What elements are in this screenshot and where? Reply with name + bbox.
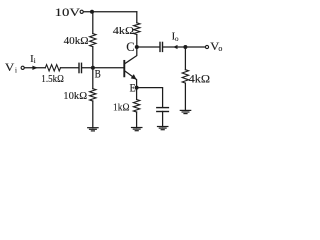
ground (bias divider) [88,128,98,131]
transistor Q1 emitter arrow [131,74,137,79]
resistor 10kΩ [90,89,96,101]
ground (emitter) [132,128,142,131]
wire: 1k to ground [136,112,138,128]
Vi terminal [21,66,24,69]
wire: 10k to ground [92,101,94,128]
svg-text:4kΩ: 4kΩ [113,25,134,37]
Ii current arrow [32,66,37,70]
wire: load resistor to ground [184,83,186,110]
svg-text:10kΩ: 10kΩ [63,90,87,102]
wire: node E to bypass cap [137,88,163,107]
wire: 4k to node C [136,35,138,48]
wire: rail down to 4k collector resistor [136,12,138,23]
resistor 40kΩ [90,34,96,47]
svg-text:10V: 10V [55,7,81,19]
10V terminal [80,10,83,13]
svg-text:i: i [15,66,17,74]
svg-text:1kΩ: 1kΩ [113,102,130,114]
wire: node B down to 10k [92,68,94,89]
output junction dot [183,45,187,49]
wire: bypass cap to ground [162,112,164,127]
resistor 4kΩ (load) [182,70,188,83]
node C dot [135,45,139,49]
capacitor C1 plates [78,63,80,72]
svg-text:i: i [34,57,36,65]
svg-text:o: o [175,35,179,43]
transistor Q1 emitter lead [125,71,136,87]
wire: 40k to node B [92,47,94,68]
wire: 10V rail [84,11,137,13]
node B dot [91,66,95,70]
junction dot on rail [90,10,94,14]
wire: node E down to 1k [136,88,138,100]
transistor Q1 collector lead [125,47,137,63]
Vo terminal [205,45,208,48]
wire: node C to coupling cap C2 [137,46,160,48]
capacitor CE bypass plates [157,107,169,109]
svg-text:40kΩ: 40kΩ [64,35,89,47]
Io current arrow [173,45,177,49]
node E dot [135,86,139,90]
svg-text:1.5kΩ: 1.5kΩ [41,74,64,85]
wire: junction down to load resistor [184,47,186,70]
svg-text:E: E [130,82,136,94]
ground (bypass) [158,127,168,130]
wire: 1.5k to coupling cap C1 [61,67,79,69]
wire: input to 1.5k [24,67,45,69]
svg-text:C: C [126,39,134,54]
resistor 1.5kΩ [45,65,60,71]
svg-text:o: o [218,44,222,53]
ground (load) [180,110,190,113]
transistor Q1 base bar [123,61,125,76]
wire: rail down to 40k [92,12,94,34]
resistor 1kΩ emitter [133,100,139,113]
wire: C2 to Vo terminal [163,46,205,48]
svg-text:4kΩ: 4kΩ [189,73,211,85]
svg-text:V: V [5,60,15,74]
wire: C1 to transistor base [82,67,123,69]
resistor 4kΩ (collector) [134,23,140,35]
capacitor C2 plates [159,42,161,51]
